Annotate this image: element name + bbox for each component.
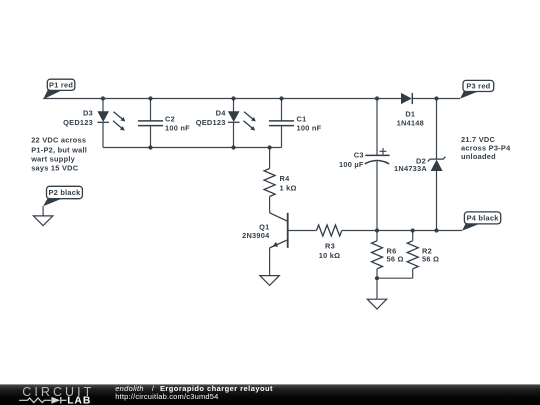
D4 light arrow 2 bbox=[244, 121, 253, 128]
svg-text:100 µF: 100 µF bbox=[339, 160, 364, 169]
resistor R3 bbox=[317, 225, 342, 260]
R4 zigzag body bbox=[264, 169, 275, 197]
svg-text:22 VDC across: 22 VDC across bbox=[31, 136, 86, 145]
Q1 collector stroke bbox=[270, 213, 288, 222]
wire C2 top lead bbox=[150, 99, 152, 121]
capacitor C3 polarized bbox=[339, 99, 390, 231]
svg-text:2N3904: 2N3904 bbox=[242, 231, 270, 240]
CircuitLab logo bbox=[19, 385, 94, 405]
svg-text:P1-P2, but wall: P1-P2, but wall bbox=[31, 145, 87, 154]
wire top rail right of D1 bbox=[412, 98, 460, 100]
wire R6 top lead bbox=[376, 231, 378, 241]
P4 flag pointer bbox=[462, 223, 480, 231]
resistor R2 bbox=[407, 231, 439, 279]
D2 anode triangle bbox=[431, 160, 443, 171]
Q1 emitter stroke bbox=[270, 240, 288, 248]
svg-text:1N4148: 1N4148 bbox=[397, 119, 424, 128]
svg-text:QED123: QED123 bbox=[196, 118, 226, 127]
svg-text:R3: R3 bbox=[325, 241, 335, 250]
ground symbol triangle Q1 bbox=[260, 276, 279, 286]
svg-text:1 kΩ: 1 kΩ bbox=[280, 184, 297, 193]
wire R6 bottom lead bbox=[376, 269, 378, 278]
D3 cathode bar bbox=[97, 121, 109, 123]
C2 top plate bbox=[138, 120, 163, 122]
transistor Q1 2N3904 NPN mirrored bbox=[242, 213, 288, 248]
C1 top plate bbox=[269, 120, 294, 122]
wire R2 bottom to R6 bottom bbox=[377, 277, 413, 279]
wire R3 to P4 bbox=[342, 230, 462, 232]
svg-text:http://circuitlab.com/c3umd54: http://circuitlab.com/c3umd54 bbox=[115, 392, 218, 401]
wire D2 cathode lead bbox=[436, 99, 438, 160]
svg-text:C1: C1 bbox=[297, 115, 307, 124]
ground Q1 emitter bbox=[260, 248, 279, 286]
node P3 terminal flag bbox=[460, 80, 494, 98]
svg-text:100 nF: 100 nF bbox=[297, 124, 322, 133]
P2 flag box bbox=[47, 186, 83, 198]
junction top rail / C2 top bbox=[148, 96, 152, 100]
ground symbol triangle R6 bbox=[367, 299, 386, 309]
Q1 emitter arrow bbox=[273, 242, 279, 247]
junction top rail / D3 anode bbox=[101, 96, 105, 100]
P3 flag box bbox=[463, 80, 494, 91]
D2 zener cathode bar bbox=[428, 157, 446, 162]
wire R4 top lead bbox=[269, 148, 271, 169]
wire R4 bottom lead to Q1 collector bbox=[269, 197, 271, 213]
P3 flag pointer bbox=[460, 91, 479, 99]
resistor R4 bbox=[264, 148, 297, 213]
svg-text:56 Ω: 56 Ω bbox=[422, 254, 439, 263]
wire bottom rail of LED loop bbox=[103, 147, 282, 149]
zener diode D2 1N4733A bbox=[394, 99, 445, 231]
wire D4 anode lead bbox=[233, 99, 235, 112]
wire D3 cathode lead bbox=[102, 122, 104, 147]
wire C1 top lead bbox=[281, 99, 283, 121]
svg-text:D4: D4 bbox=[216, 109, 227, 118]
footer text bbox=[115, 384, 273, 401]
wire Q1 emitter to ground bbox=[269, 248, 271, 276]
svg-text:P4 black: P4 black bbox=[467, 213, 500, 222]
svg-text:P2 black: P2 black bbox=[49, 188, 82, 197]
junction mid rail / D2 anode branch bbox=[434, 228, 438, 232]
svg-text:1N4733A: 1N4733A bbox=[394, 164, 427, 173]
svg-text:C3: C3 bbox=[354, 151, 364, 160]
svg-text:unloaded: unloaded bbox=[461, 152, 496, 161]
svg-text:56 Ω: 56 Ω bbox=[387, 254, 404, 263]
node P4 terminal flag bbox=[462, 212, 501, 231]
capacitor C2 bbox=[138, 99, 190, 148]
R6 zigzag body bbox=[372, 241, 383, 269]
D3 light arrow 1 bbox=[114, 112, 123, 119]
junction top rail / D4 anode bbox=[231, 96, 235, 100]
D3 anode triangle bbox=[97, 111, 109, 122]
node P2 terminal flag bbox=[43, 186, 82, 206]
svg-text:P1 red: P1 red bbox=[49, 80, 73, 89]
LED D3 QED123 bbox=[63, 99, 125, 148]
P4 flag box bbox=[464, 212, 500, 224]
R3 zigzag body bbox=[317, 225, 342, 236]
ground P2 bbox=[33, 206, 52, 226]
junction mid rail / C3 bottom R6 top bbox=[375, 228, 379, 232]
junction R6 bottom / ground node bbox=[375, 276, 379, 280]
LED D4 QED123 bbox=[196, 99, 256, 148]
wire D2 anode lead bbox=[436, 171, 438, 231]
wire C1 bottom lead to bottom rail bbox=[281, 126, 283, 148]
diode D1 1N4148 bbox=[397, 93, 424, 128]
wire D3 anode lead bbox=[102, 99, 104, 112]
junction top rail / C1 top bbox=[279, 96, 283, 100]
D1 cathode bar bbox=[411, 93, 413, 104]
ground R6 R2 bbox=[367, 278, 386, 309]
svg-text:R4: R4 bbox=[280, 174, 291, 183]
D4 anode triangle bbox=[228, 111, 240, 122]
wire top rail P1 to P3 bbox=[43, 98, 401, 100]
ground symbol triangle P2 bbox=[33, 216, 52, 226]
D4 cathode bar bbox=[228, 121, 240, 123]
annotation note left bbox=[30, 136, 87, 173]
C2 bottom plate bbox=[138, 125, 163, 127]
wire P2 flag to ground bbox=[42, 206, 44, 216]
svg-text:C2: C2 bbox=[165, 115, 175, 124]
C1 bottom plate bbox=[269, 125, 294, 127]
P1 flag pointer bbox=[43, 90, 62, 99]
junction top rail / C3 top bbox=[375, 96, 379, 100]
C3 plus sign bbox=[380, 150, 387, 152]
svg-text:P3 red: P3 red bbox=[466, 82, 490, 91]
wire R6 bottom node to ground bbox=[376, 278, 378, 299]
wire R2 bottom lead bbox=[412, 269, 414, 278]
junction bottom rail / C2 bottom bbox=[148, 145, 152, 149]
node P1 terminal flag bbox=[43, 79, 75, 99]
junction bottom rail / D4 cathode bbox=[231, 145, 235, 149]
P1 flag box bbox=[47, 79, 75, 90]
svg-text:10 kΩ: 10 kΩ bbox=[319, 251, 341, 260]
Q1 base bar bbox=[287, 213, 289, 248]
svg-text:wart supply: wart supply bbox=[30, 155, 75, 164]
svg-text:says 15 VDC: says 15 VDC bbox=[31, 164, 79, 173]
junction top rail / D2 cathode branch bbox=[434, 96, 438, 100]
wire R2 top lead bbox=[412, 231, 414, 241]
resistor R6 bbox=[372, 231, 404, 279]
junction mid rail / R2 top bbox=[411, 228, 415, 232]
C3 positive plate bbox=[365, 154, 389, 156]
wire C3 positive lead bbox=[376, 99, 378, 156]
annotation note right bbox=[461, 135, 511, 161]
wire C3 negative lead bbox=[376, 162, 378, 231]
C3 negative curved plate bbox=[365, 161, 389, 164]
D4 light arrow 1 bbox=[244, 112, 253, 119]
svg-text:D3: D3 bbox=[83, 109, 93, 118]
svg-text:Q1: Q1 bbox=[259, 222, 269, 231]
svg-text:100 nF: 100 nF bbox=[165, 124, 190, 133]
wire C2 bottom lead bbox=[150, 126, 152, 148]
wire Q1 base to R3 bbox=[288, 230, 317, 232]
R2 zigzag body bbox=[407, 241, 418, 269]
junction bottom rail / R4 top bbox=[268, 145, 272, 149]
capacitor C1 bbox=[269, 99, 322, 148]
D1 anode triangle bbox=[401, 93, 412, 104]
wire D4 cathode lead bbox=[233, 122, 235, 147]
D3 light arrow 2 bbox=[113, 121, 122, 128]
svg-text:D1: D1 bbox=[405, 109, 415, 118]
P2 flag pointer bbox=[43, 198, 62, 206]
svg-text:QED123: QED123 bbox=[63, 118, 93, 127]
svg-text:LAB: LAB bbox=[67, 395, 91, 405]
